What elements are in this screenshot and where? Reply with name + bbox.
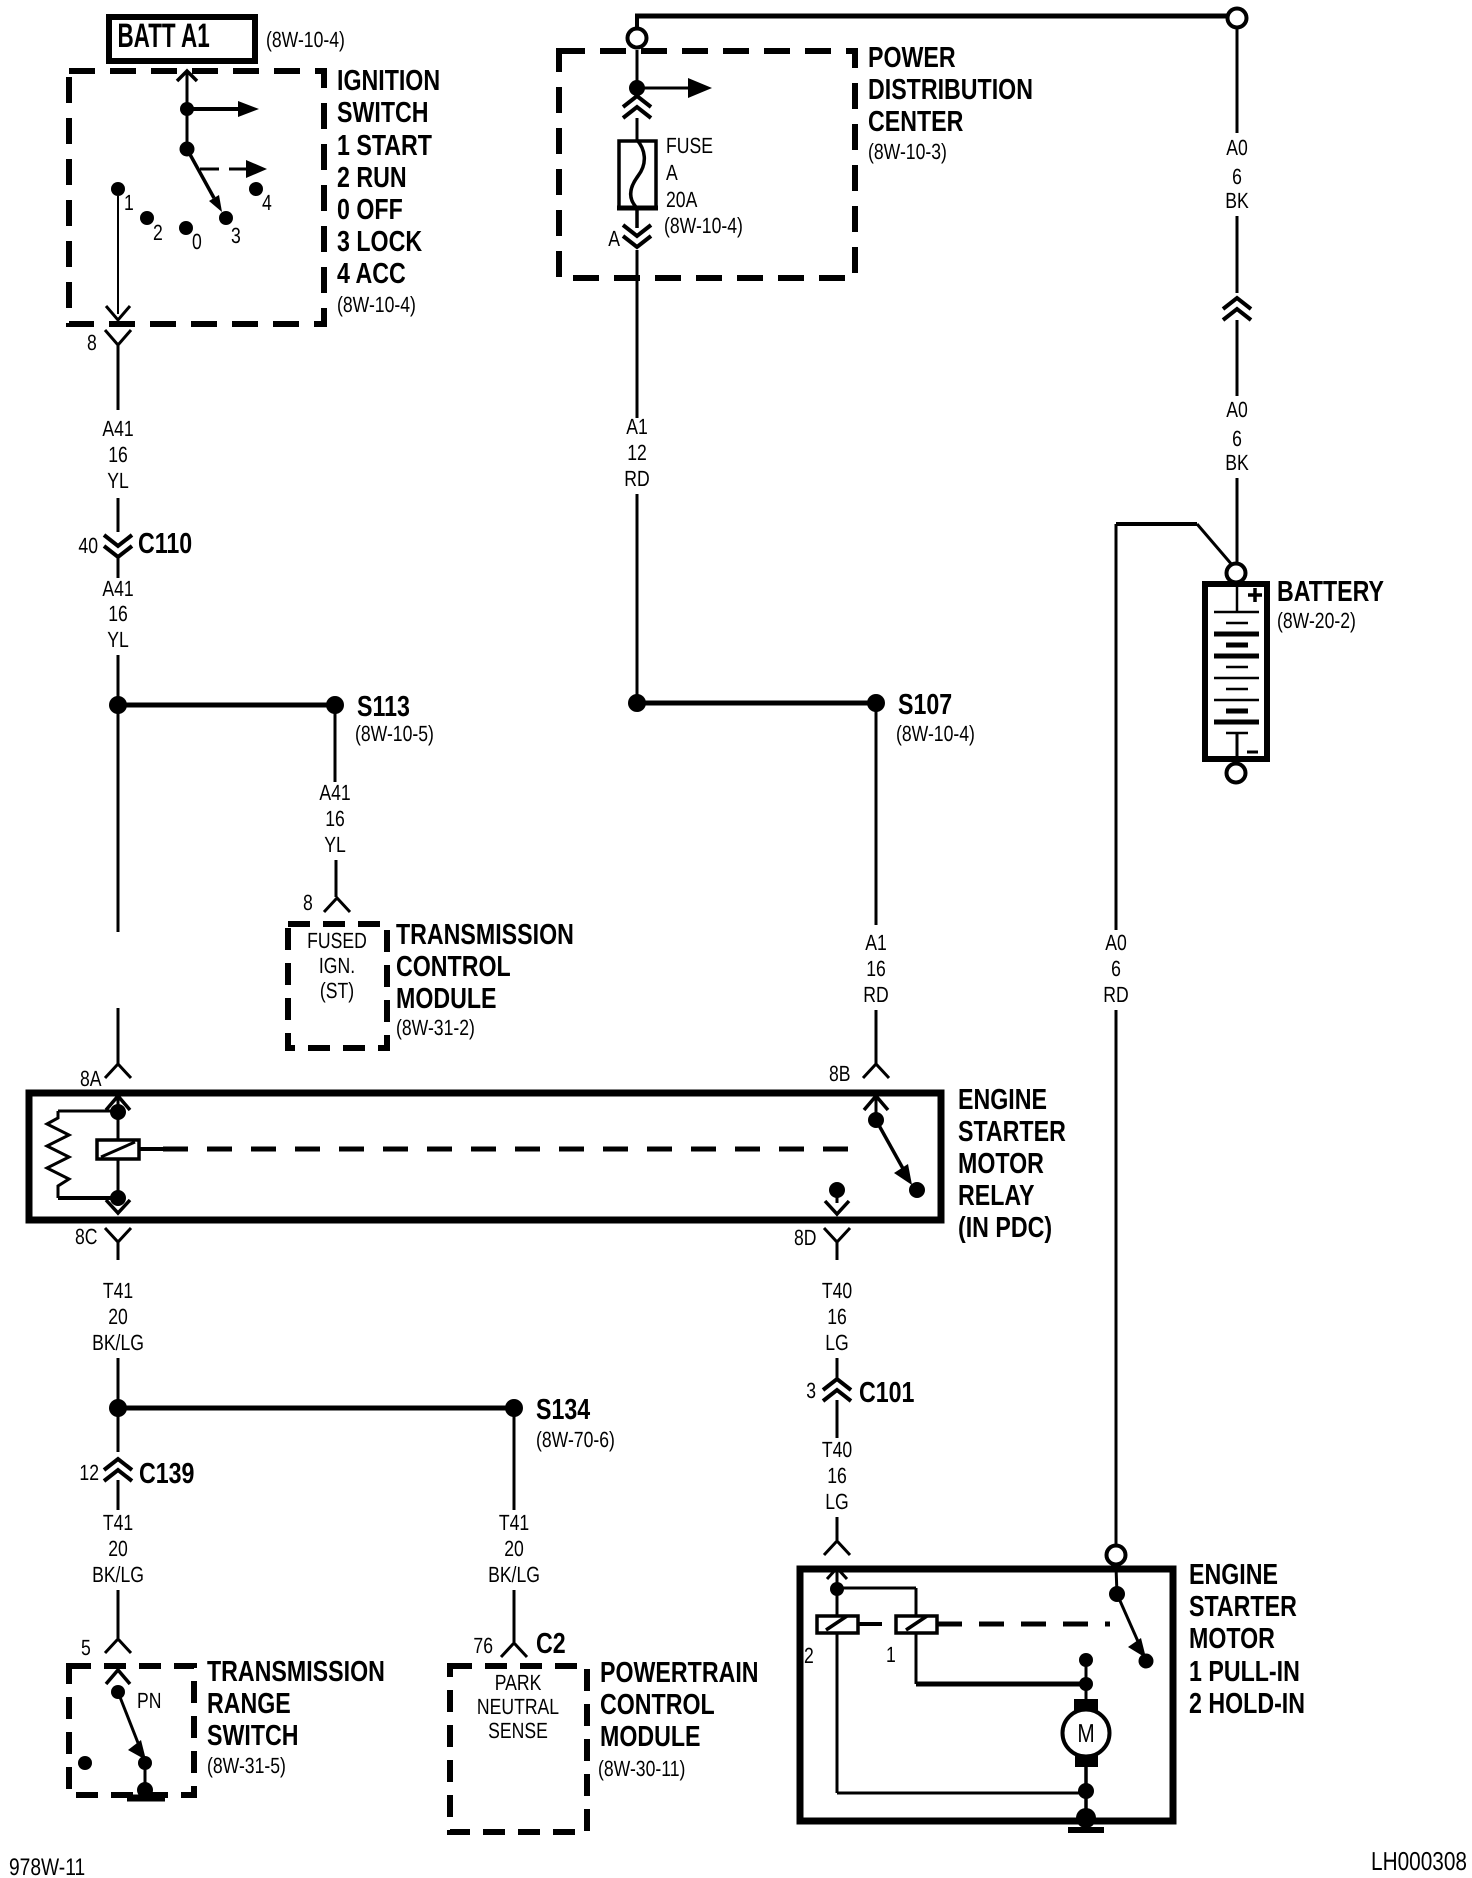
svg-text:3 LOCK: 3 LOCK <box>337 226 422 258</box>
svg-text:T41: T41 <box>499 1510 529 1535</box>
svg-text:20: 20 <box>504 1536 524 1561</box>
wire label T41 20 BK/LG (2) <box>92 1510 144 1587</box>
svg-text:STARTER: STARTER <box>1189 1591 1297 1623</box>
wire <box>875 1010 878 1064</box>
svg-text:RANGE: RANGE <box>207 1688 291 1720</box>
switch wiper arm to position 3 <box>187 149 222 212</box>
motor brush bottom <box>1075 1755 1098 1767</box>
wire <box>1236 320 1239 396</box>
svg-text:3: 3 <box>806 1378 816 1403</box>
svg-text:A0: A0 <box>1226 135 1248 160</box>
engine starter motor box <box>800 1569 1173 1821</box>
8A entry arrow inside relay <box>106 1096 130 1111</box>
battery plus sign <box>1248 588 1262 602</box>
starter entry arrow <box>827 1568 847 1588</box>
svg-text:TRANSMISSION: TRANSMISSION <box>207 1656 385 1688</box>
svg-text:2: 2 <box>153 220 163 245</box>
wire <box>836 1400 839 1438</box>
wire <box>1236 216 1239 293</box>
svg-text:RD: RD <box>863 982 888 1007</box>
svg-text:40: 40 <box>78 533 98 558</box>
svg-text:SWITCH: SWITCH <box>337 97 429 129</box>
pin 76 connector C2 into PCM <box>473 1628 565 1660</box>
contact 1 <box>111 182 125 196</box>
TRS switch common contact <box>111 1685 125 1699</box>
relay coil wire <box>117 1112 120 1198</box>
fuse A 20A <box>617 140 658 208</box>
contact 4 <box>249 182 263 196</box>
svg-text:A: A <box>608 226 620 251</box>
svg-text:(8W-10-3): (8W-10-3) <box>868 139 947 164</box>
svg-text:A41: A41 <box>102 416 133 441</box>
svg-text:TRANSMISSION: TRANSMISSION <box>396 919 574 951</box>
motor brush top <box>1074 1699 1098 1711</box>
starter feed wire continues down <box>1115 1010 1118 1545</box>
relay output contact to 8D <box>825 1182 849 1214</box>
svg-text:SWITCH: SWITCH <box>207 1720 299 1752</box>
pull-in coil output wire to motor <box>916 1633 1086 1684</box>
motor return junction <box>1078 1783 1094 1799</box>
svg-text:BK/LG: BK/LG <box>488 1562 540 1587</box>
svg-text:PN: PN <box>137 1688 161 1713</box>
svg-text:1 START: 1 START <box>337 130 432 162</box>
solenoid switch common contact <box>1109 1586 1125 1602</box>
terminal circle top right <box>1228 9 1247 28</box>
wire from terminal down <box>636 50 639 88</box>
relay switch end contact <box>909 1182 925 1198</box>
wire from terminal to contact <box>1116 1567 1117 1594</box>
svg-text:BK: BK <box>1225 450 1249 475</box>
svg-text:1: 1 <box>886 1642 896 1667</box>
svg-text:20A: 20A <box>666 187 698 212</box>
wire <box>117 557 120 578</box>
contact 3 <box>219 211 233 225</box>
starter solenoid top junction <box>830 1582 844 1596</box>
svg-text:T40: T40 <box>822 1278 852 1303</box>
starter ground <box>1068 1808 1104 1830</box>
svg-text:MODULE: MODULE <box>600 1721 701 1753</box>
svg-text:BATTERY: BATTERY <box>1277 576 1384 608</box>
wire from junction into hold-in coil <box>836 1589 839 1616</box>
ignition switch box (dashed) <box>69 71 324 324</box>
svg-text:2 HOLD-IN: 2 HOLD-IN <box>1189 1688 1305 1720</box>
pin 8B connector into relay <box>829 1061 889 1086</box>
starter label block <box>1189 1559 1305 1720</box>
wire from S107 down to relay 8B <box>875 703 878 925</box>
splice S107 <box>867 694 885 712</box>
in-line connector chevrons <box>1223 298 1251 320</box>
wire down to S107 tee <box>636 494 639 703</box>
relay box <box>29 1093 941 1220</box>
svg-text:C110: C110 <box>138 528 192 560</box>
battery box <box>1205 584 1267 759</box>
TRS idle contact <box>78 1756 92 1770</box>
wire to splice S113 <box>118 703 335 708</box>
starter motor M <box>1063 1710 1110 1757</box>
wire <box>117 1480 120 1510</box>
wire label T41 20 BK/LG (3) <box>488 1510 540 1587</box>
wire from S134 down to PCM <box>513 1408 516 1510</box>
wire to splice S107 <box>637 701 876 706</box>
svg-text:YL: YL <box>107 627 129 652</box>
fuse label block <box>664 133 743 238</box>
PDC label block <box>868 42 1033 164</box>
wire from S113 tee down to relay 8A <box>117 705 120 932</box>
svg-text:C139: C139 <box>139 1458 194 1490</box>
svg-text:4: 4 <box>262 190 272 215</box>
wire from S113 down <box>334 705 337 782</box>
pin 8 connector into TCM <box>303 890 350 915</box>
svg-text:PARK: PARK <box>495 1670 542 1695</box>
svg-text:20: 20 <box>108 1536 128 1561</box>
dashed arrow (accessory feed) <box>200 160 267 178</box>
svg-text:16: 16 <box>827 1463 847 1488</box>
svg-text:(8W-10-5): (8W-10-5) <box>355 721 434 746</box>
contact 0 <box>179 221 193 235</box>
pin 8 connector below ignition switch <box>87 330 131 362</box>
TRS entry arrow <box>106 1670 130 1684</box>
svg-text:8D: 8D <box>794 1225 817 1250</box>
svg-text:C2: C2 <box>536 1628 566 1660</box>
svg-text:T41: T41 <box>103 1278 133 1303</box>
TRS label block <box>207 1656 385 1778</box>
junction at S113 tee (left) <box>109 696 127 714</box>
relay coil element <box>97 1140 139 1159</box>
hold-in coil return wire to ground <box>837 1633 1086 1793</box>
motor feed junction lower <box>1079 1677 1093 1691</box>
wire down to PCM <box>513 1590 516 1642</box>
svg-text:RD: RD <box>1103 982 1128 1007</box>
wire down to S113 tee <box>117 655 120 705</box>
svg-text:20: 20 <box>108 1304 128 1329</box>
wire <box>836 1358 839 1378</box>
svg-text:16: 16 <box>108 601 128 626</box>
svg-text:(8W-10-4): (8W-10-4) <box>266 27 345 52</box>
PCM label block <box>598 1657 759 1781</box>
relay switch arm <box>876 1120 912 1185</box>
svg-text:4 ACC: 4 ACC <box>337 258 406 290</box>
battery internal stem bottom <box>1236 733 1239 758</box>
svg-text:(8W-20-2): (8W-20-2) <box>1277 608 1356 633</box>
junction node in ignition switch (upper) <box>180 102 194 116</box>
relay coil top junction <box>110 1104 126 1120</box>
svg-text:MOTOR: MOTOR <box>958 1148 1044 1180</box>
svg-text:C101: C101 <box>859 1377 914 1409</box>
svg-text:CONTROL: CONTROL <box>396 951 511 983</box>
8C exit arrow inside relay <box>106 1200 130 1213</box>
svg-text:STARTER: STARTER <box>958 1116 1066 1148</box>
svg-text:S107: S107 <box>898 689 952 721</box>
svg-text:(8W-10-4): (8W-10-4) <box>896 721 975 746</box>
TRS ground stem and symbol <box>127 1763 165 1798</box>
svg-text:16: 16 <box>866 956 886 981</box>
wire A41 upper <box>117 362 120 410</box>
relay label block <box>958 1084 1066 1244</box>
ignition switch label block <box>337 65 440 317</box>
svg-text:S113: S113 <box>357 691 410 723</box>
connector into starter motor <box>824 1541 850 1555</box>
TRS switch arm <box>118 1692 146 1760</box>
wire down to TRS <box>117 1590 120 1638</box>
wire down to starter <box>836 1517 839 1540</box>
svg-text:5: 5 <box>81 1635 91 1660</box>
wire <box>186 109 189 149</box>
svg-text:POWERTRAIN: POWERTRAIN <box>600 1657 759 1689</box>
svg-text:A0: A0 <box>1105 930 1127 955</box>
svg-text:POWER: POWER <box>868 42 956 74</box>
link between coils <box>858 1622 882 1626</box>
svg-text:BK: BK <box>1225 188 1249 213</box>
8B entry arrow inside relay <box>864 1096 888 1120</box>
wire from junction down to motor <box>1085 1660 1088 1700</box>
svg-text:2: 2 <box>804 1643 814 1668</box>
svg-text:3: 3 <box>231 223 241 248</box>
svg-text:(8W-31-5): (8W-31-5) <box>207 1753 286 1778</box>
splice S113 <box>326 696 344 714</box>
svg-text:A41: A41 <box>319 780 350 805</box>
wire label T40 16 LG (1) <box>822 1278 852 1355</box>
node BATT A1 box <box>109 17 255 61</box>
transmission control module box (dashed) <box>288 924 387 1048</box>
wire <box>117 498 120 532</box>
svg-text:8: 8 <box>303 890 313 915</box>
relay actuation dashed link <box>139 1147 866 1151</box>
pin 8A connector into relay <box>80 1008 131 1091</box>
svg-text:BK/LG: BK/LG <box>92 1330 144 1355</box>
svg-text:6: 6 <box>1232 426 1242 451</box>
connector C101 (pin 3) <box>806 1377 914 1409</box>
junction in PDC <box>629 80 645 96</box>
TCM label block <box>396 919 574 1040</box>
wire label T40 16 LG (2) <box>822 1437 852 1514</box>
power distribution center box (dashed) <box>559 51 855 278</box>
relay resistor (parallel) <box>47 1111 118 1198</box>
wire label A0 6 RD on starter feed <box>1103 930 1128 1007</box>
svg-text:12: 12 <box>79 1460 99 1485</box>
arrow to RUN feed (right) <box>187 101 259 117</box>
svg-text:A1: A1 <box>865 930 887 955</box>
svg-text:LH000308: LH000308 <box>1371 1846 1467 1876</box>
svg-text:ENGINE: ENGINE <box>1189 1559 1278 1591</box>
svg-text:A: A <box>666 160 678 185</box>
svg-text:T40: T40 <box>822 1437 852 1462</box>
svg-text:A0: A0 <box>1226 397 1248 422</box>
svg-text:6: 6 <box>1232 164 1242 189</box>
battery minus sign <box>1247 751 1258 754</box>
wire label A0 6 BK (2) <box>1225 397 1249 475</box>
motor feed junction upper <box>1079 1653 1093 1667</box>
jog wire from battery positive to starter feed <box>1116 524 1233 930</box>
connector C110 (pin 40) <box>78 528 192 560</box>
wire down to battery positive terminal <box>1236 478 1239 563</box>
TRS arm end contact <box>138 1756 152 1770</box>
pin 8D connector below relay <box>794 1225 850 1260</box>
svg-text:YL: YL <box>107 468 129 493</box>
wire from BATT A1 into ignition switch with up arrow <box>177 71 197 109</box>
svg-text:CONTROL: CONTROL <box>600 1689 715 1721</box>
svg-text:8B: 8B <box>829 1061 851 1086</box>
solenoid actuation dashed link <box>937 1622 1110 1627</box>
svg-text:S134: S134 <box>536 1394 590 1426</box>
solenoid switch terminal circle on starter box <box>1107 1546 1126 1565</box>
svg-text:FUSE: FUSE <box>666 133 713 158</box>
svg-text:978W-11: 978W-11 <box>9 1854 85 1878</box>
wire label A1 12 RD <box>624 414 649 491</box>
svg-text:(8W-30-11): (8W-30-11) <box>598 1756 685 1781</box>
wire label T41 20 BK/LG (1) <box>92 1278 144 1355</box>
PCM pin function label <box>477 1670 559 1743</box>
svg-text:A1: A1 <box>626 414 648 439</box>
transmission range switch box (dashed) <box>69 1666 194 1795</box>
battery negative terminal circle <box>1227 764 1246 783</box>
svg-text:(8W-10-4): (8W-10-4) <box>337 292 416 317</box>
svg-text:IGNITION: IGNITION <box>337 65 440 97</box>
svg-text:(IN PDC): (IN PDC) <box>958 1212 1052 1244</box>
wire down from terminal <box>1236 29 1239 133</box>
contact 2 <box>140 211 154 225</box>
svg-text:A41: A41 <box>102 576 133 601</box>
svg-text:6: 6 <box>1111 956 1121 981</box>
svg-text:MODULE: MODULE <box>396 983 497 1015</box>
svg-text:8A: 8A <box>80 1066 102 1091</box>
svg-text:RD: RD <box>624 466 649 491</box>
svg-text:2 RUN: 2 RUN <box>337 162 407 194</box>
connector C139 (pin 12) <box>79 1458 194 1490</box>
svg-text:DISTRIBUTION: DISTRIBUTION <box>868 74 1033 106</box>
svg-text:T41: T41 <box>103 1510 133 1535</box>
wire <box>117 1408 120 1452</box>
battery label block <box>1277 576 1384 633</box>
wire label A41 16 YL (3) <box>319 780 350 857</box>
wire down to TCM <box>335 860 338 897</box>
arrow feed right in PDC <box>637 78 712 98</box>
solenoid switch end contact <box>1139 1654 1154 1669</box>
junction at S134 tee (left) <box>109 1399 127 1417</box>
battery positive terminal circle <box>1227 564 1246 583</box>
solenoid switch arm <box>1117 1594 1146 1658</box>
svg-text:MOTOR: MOTOR <box>1189 1623 1275 1655</box>
svg-text:0 OFF: 0 OFF <box>337 194 403 226</box>
svg-text:IGN.: IGN. <box>319 953 355 978</box>
junction node in ignition switch (lower, wiper pivot) <box>180 142 195 157</box>
wire to splice S134 <box>118 1406 514 1411</box>
wire down to S134 tee <box>117 1358 120 1408</box>
wire A1 from fuse down to S107 <box>636 250 639 418</box>
hold-in coil 2 <box>817 1616 858 1633</box>
wire from junction to pull-in coil <box>837 1588 916 1616</box>
double chevron connector above fuse <box>623 96 651 141</box>
wire label A41 16 YL (2) <box>102 576 133 652</box>
terminal circle at PDC B+ <box>628 29 647 48</box>
svg-text:1: 1 <box>124 190 134 215</box>
svg-text:(8W-31-2): (8W-31-2) <box>396 1015 475 1040</box>
svg-text:16: 16 <box>325 806 345 831</box>
motor ground wire <box>1084 1765 1088 1818</box>
svg-text:0: 0 <box>192 229 202 254</box>
svg-text:BATT A1: BATT A1 <box>117 17 209 55</box>
svg-text:M: M <box>1077 1718 1094 1748</box>
wire label A41 16 YL (1) <box>102 416 133 493</box>
wire label A1 16 RD <box>863 930 888 1007</box>
svg-text:LG: LG <box>825 1330 848 1355</box>
svg-text:BK/LG: BK/LG <box>92 1562 144 1587</box>
pin 8C connector below relay <box>75 1224 131 1260</box>
pin 5 connector into TRS <box>81 1635 131 1660</box>
svg-text:FUSED: FUSED <box>307 928 367 953</box>
wire label A0 6 BK (1) <box>1225 135 1249 213</box>
svg-text:12: 12 <box>627 440 647 465</box>
powertrain control module box (dashed) <box>450 1666 587 1832</box>
svg-text:(8W-70-6): (8W-70-6) <box>536 1427 615 1452</box>
svg-text:YL: YL <box>324 832 346 857</box>
svg-text:8: 8 <box>87 330 97 355</box>
relay switch common contact <box>868 1112 884 1128</box>
svg-text:16: 16 <box>108 442 128 467</box>
svg-text:(ST): (ST) <box>320 978 354 1003</box>
splice S134 <box>505 1399 523 1417</box>
svg-text:ENGINE: ENGINE <box>958 1084 1047 1116</box>
relay coil bottom junction <box>110 1190 126 1206</box>
svg-text:NEUTRAL: NEUTRAL <box>477 1694 559 1719</box>
junction at S107 tee (left) <box>628 694 646 712</box>
svg-text:SENSE: SENSE <box>488 1718 548 1743</box>
battery plates <box>1214 612 1259 733</box>
svg-text:1 PULL-IN: 1 PULL-IN <box>1189 1656 1300 1688</box>
svg-text:CENTER: CENTER <box>868 106 963 138</box>
battery internal stem top <box>1236 584 1239 612</box>
pull-in coil 1 <box>896 1616 937 1633</box>
fuse output pin A with down chevrons <box>608 208 651 251</box>
svg-text:RELAY: RELAY <box>958 1180 1035 1212</box>
wire from contact 1 down to pin 8 <box>106 196 130 320</box>
svg-text:(8W-10-4): (8W-10-4) <box>664 213 743 238</box>
TCM pin function label <box>307 928 367 1003</box>
svg-text:8C: 8C <box>75 1224 98 1249</box>
svg-text:76: 76 <box>473 1633 493 1658</box>
top bus wire from PDC to battery terminal <box>635 15 1227 29</box>
svg-text:LG: LG <box>825 1489 848 1514</box>
svg-text:16: 16 <box>827 1304 847 1329</box>
